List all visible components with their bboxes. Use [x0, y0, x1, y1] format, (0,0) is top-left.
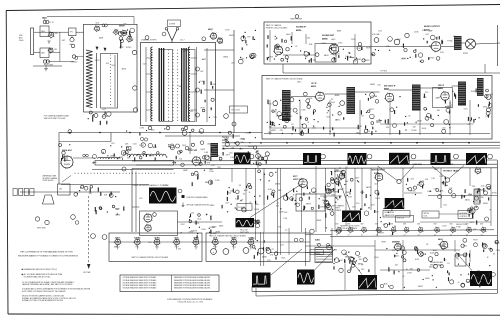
- svg-text:270V: 270V: [218, 43, 223, 45]
- oscillator coil L4: [151, 47, 153, 121]
- audio wires: [339, 46, 431, 48]
- vert lin pot: [326, 203, 330, 207]
- strip contact bar A: [158, 48, 160, 121]
- svg-text:150V: 150V: [414, 92, 419, 94]
- svg-text:.22: .22: [271, 249, 274, 251]
- svg-text:100K: 100K: [425, 278, 430, 280]
- heater tube row: [337, 228, 342, 233]
- svg-text:100K: 100K: [414, 32, 419, 34]
- agc line parts: [126, 130, 127, 131]
- svg-text:4BZ6: 4BZ6: [296, 29, 302, 32]
- svg-text:VERT: VERT: [366, 187, 372, 189]
- right edge vertical: [497, 160, 499, 294]
- power tube V23: [440, 241, 448, 249]
- svg-text:MIXER: MIXER: [119, 26, 125, 28]
- power tube V22: [395, 244, 402, 251]
- power supply box: [304, 228, 306, 266]
- AGC box bottom: [61, 184, 149, 186]
- svg-text:4BN6: 4BN6: [370, 84, 375, 86]
- svg-text:.047: .047: [269, 127, 273, 129]
- W9 side parts: [253, 220, 256, 223]
- flyback parts: [483, 188, 485, 192]
- RF top cap pair: [102, 24, 105, 27]
- tuner cap pair bottom: [43, 60, 46, 63]
- svg-text:SOUND IF: SOUND IF: [296, 27, 307, 29]
- audio feed drop: [484, 64, 486, 73]
- flyback winding: [474, 189, 480, 204]
- svg-text:33: 33: [408, 115, 410, 117]
- waveform photo W13: [470, 271, 492, 286]
- sound components B: [356, 58, 357, 59]
- lineup box 1: [109, 233, 202, 261]
- height control: [272, 190, 275, 193]
- svg-text:6X8: 6X8: [466, 224, 469, 226]
- svg-text:3.9K: 3.9K: [348, 197, 353, 199]
- svg-text:680: 680: [462, 102, 465, 104]
- svg-text:1K5: 1K5: [54, 49, 57, 51]
- svg-text:6X8: 6X8: [336, 224, 339, 226]
- deflection yoke plug: [13, 189, 17, 196]
- bus junction cap: [68, 130, 72, 134]
- svg-text:6.8K: 6.8K: [358, 126, 363, 128]
- svg-text:AMP: AMP: [99, 36, 104, 39]
- svg-text:3.9K: 3.9K: [357, 48, 362, 50]
- svg-text:4BN6: 4BN6: [262, 257, 267, 259]
- AGC line trimmers: [224, 114, 229, 119]
- svg-text:4BN6: 4BN6: [322, 37, 328, 40]
- height control pot: [326, 189, 331, 194]
- power area parts: [270, 252, 271, 253]
- IF inner wire row: [270, 127, 360, 129]
- svg-text:AMP: AMP: [337, 29, 342, 32]
- vert osc parts: [295, 203, 296, 204]
- vert section left vertical: [263, 169, 265, 233]
- svg-text:AMP: AMP: [434, 168, 439, 171]
- interlock label box: [310, 250, 324, 255]
- focus label box: [237, 204, 252, 211]
- svg-text:AMP: AMP: [336, 177, 341, 180]
- svg-text:VERT: VERT: [339, 189, 345, 191]
- svg-text:AGC: AGC: [286, 33, 291, 36]
- tube V20 horiz output: [375, 173, 383, 181]
- svg-text:5BB6: 5BB6: [193, 238, 199, 240]
- svg-text:270V: 270V: [225, 30, 230, 32]
- svg-text:HOR: HOR: [339, 260, 344, 262]
- IF stage4 parts: [444, 120, 449, 125]
- delay line DL1: [98, 157, 120, 159]
- svg-text:AMP: AMP: [115, 208, 120, 211]
- sync sep caps: [177, 151, 180, 154]
- right column components: [255, 30, 256, 31]
- IF agc row: [365, 125, 367, 128]
- sweep section top line 2: [136, 163, 497, 166]
- channel strip box: [141, 43, 216, 126]
- video amp cap pair: [140, 137, 143, 140]
- RF block lower trimmers: [94, 114, 98, 118]
- svg-text:DAMPER: DAMPER: [392, 241, 400, 244]
- svg-text:100K: 100K: [375, 198, 380, 200]
- svg-text:VERT: VERT: [271, 130, 277, 132]
- svg-text:6X8: 6X8: [417, 224, 420, 226]
- coupling cap C6: [71, 44, 75, 48]
- svg-text:2.2M: 2.2M: [140, 127, 145, 129]
- svg-text:TRANS: TRANS: [335, 209, 342, 212]
- power transformer T11: [315, 248, 333, 263]
- strip sub rect A: [159, 50, 173, 122]
- bottom mid wires: [310, 252, 330, 254]
- svg-text:8FP7: 8FP7: [293, 176, 298, 178]
- svg-text:300Ω: 300Ω: [19, 40, 24, 42]
- svg-text:6X8: 6X8: [361, 224, 364, 226]
- waveform W7 junction: [360, 208, 362, 210]
- svg-text:3.9K: 3.9K: [485, 116, 490, 118]
- B plus bus 2: [222, 144, 500, 147]
- strip sub rect B: [182, 50, 196, 122]
- svg-text:150V: 150V: [129, 40, 134, 42]
- svg-text:WAVEFORM: WAVEFORM: [385, 214, 395, 217]
- svg-text:4BN6: 4BN6: [275, 183, 281, 185]
- svg-text:VERT OSC: VERT OSC: [293, 179, 303, 181]
- ion trap dashed line: [88, 196, 90, 264]
- svg-text:HOR LIN: HOR LIN: [397, 218, 405, 220]
- horiz afc parts: [446, 185, 447, 186]
- svg-text:680: 680: [214, 146, 217, 148]
- sweep section box top: [132, 167, 497, 170]
- svg-text:4BZ6: 4BZ6: [210, 205, 215, 207]
- svg-text:HOR: HOR: [415, 259, 420, 261]
- audio area parts: [415, 49, 416, 50]
- svg-text:.047: .047: [313, 253, 317, 255]
- waveform pointer V1b: [400, 166, 414, 182]
- svg-text:6AU7: 6AU7: [115, 237, 121, 240]
- contrast control: [486, 95, 491, 100]
- svg-text:SYNC: SYNC: [103, 116, 109, 118]
- vert output verticals: [260, 232, 262, 266]
- bus junction dots: [234, 142, 236, 144]
- strip inner left line: [145, 47, 147, 122]
- lineup feed tubes: [91, 234, 96, 239]
- horiz section divider: [330, 235, 497, 238]
- svg-text:5U4: 5U4: [378, 30, 381, 32]
- boost cap: [419, 252, 424, 257]
- svg-text:5U4: 5U4: [307, 37, 310, 39]
- waveform W0 callout: [178, 189, 182, 193]
- svg-text:.047: .047: [200, 71, 204, 73]
- right margin line: [497, 25, 499, 66]
- sound inner parts: [315, 53, 319, 57]
- svg-text:TO PIN 3: TO PIN 3: [380, 71, 387, 73]
- svg-text:AGC: AGC: [244, 189, 249, 192]
- page border left edge: [6, 11, 8, 315]
- svg-text:PART OF CHASSIS PRINTED CIRCUI: PART OF CHASSIS PRINTED CIRCUIT BOARD: [132, 256, 169, 259]
- strip contact bar B: [181, 48, 183, 121]
- filter cap C40: [211, 249, 217, 255]
- waveform pointer V2b: [449, 166, 464, 179]
- svg-text:3RD IF: 3RD IF: [438, 85, 445, 87]
- svg-text:4.7: 4.7: [376, 235, 378, 237]
- svg-text:470: 470: [280, 130, 283, 132]
- pointer line d3: [337, 174, 351, 212]
- svg-text:100K: 100K: [254, 209, 259, 211]
- rectifier parts: [342, 250, 347, 255]
- svg-text:6X8: 6X8: [403, 224, 406, 226]
- svg-text:33: 33: [295, 46, 297, 48]
- svg-text:TWEET FILTER: TWEET FILTER: [290, 19, 303, 21]
- svg-text:VERT: VERT: [339, 205, 345, 207]
- svg-text:CHANNEL STRIPS: CHANNEL STRIPS: [141, 39, 157, 42]
- svg-text:HEIGHT: HEIGHT: [332, 192, 338, 194]
- svg-text:4.7: 4.7: [481, 235, 483, 237]
- svg-text:SYNC: SYNC: [492, 193, 498, 195]
- vert out coupling: [35, 217, 39, 221]
- sweep section box left inner: [135, 172, 137, 233]
- svg-text:COIL: COIL: [424, 216, 428, 218]
- svg-text:4.7: 4.7: [348, 235, 350, 237]
- bottom mid parts: [348, 252, 349, 253]
- vert integrator parts: [240, 200, 241, 201]
- svg-text:5U4: 5U4: [443, 205, 446, 207]
- delay line tap: [122, 167, 126, 171]
- mixer cluster: [121, 30, 126, 35]
- flyback feed wire: [428, 195, 497, 197]
- wafer arrow B: [104, 48, 107, 52]
- balun box B2: [40, 48, 49, 58]
- RF section outer box: [84, 24, 138, 112]
- svg-text:8CA: 8CA: [175, 237, 180, 240]
- svg-text:OSC: OSC: [241, 59, 246, 61]
- tube V17 phase det: [145, 225, 151, 231]
- RF top tube: [95, 26, 100, 31]
- svg-text:4BN6: 4BN6: [358, 263, 364, 265]
- sound box wires: [283, 54, 315, 56]
- balun box B1: [40, 26, 49, 37]
- svg-text:SYNC: SYNC: [287, 116, 293, 118]
- svg-text:100K: 100K: [272, 112, 277, 114]
- svg-text:AMP: AMP: [357, 58, 362, 61]
- filter cap C42: [243, 248, 249, 254]
- svg-text:AGC: AGC: [153, 146, 158, 149]
- svg-text:AMP: AMP: [202, 58, 207, 61]
- svg-text:.047: .047: [395, 265, 399, 267]
- svg-text:150V: 150V: [442, 226, 447, 228]
- IF stage1 parts: [272, 122, 274, 126]
- svg-text:270V: 270V: [194, 223, 199, 225]
- speaker: [466, 39, 476, 49]
- svg-text:SYNC: SYNC: [447, 40, 453, 42]
- tube V15 AGC keyer: [61, 156, 73, 168]
- tube V16 sync amp: [144, 214, 152, 222]
- svg-text:TP1 LOOK: TP1 LOOK: [231, 110, 241, 112]
- legend chassis symbol: [182, 195, 185, 198]
- svg-text:150V: 150V: [316, 244, 321, 246]
- svg-text:4BN6: 4BN6: [110, 156, 116, 158]
- svg-text:5U4: 5U4: [143, 64, 146, 66]
- RF coil inner rect: [101, 54, 118, 109]
- svg-text:150V: 150V: [470, 222, 475, 224]
- tube V10 1st IF: [316, 92, 325, 101]
- strip top trimmers: [145, 36, 149, 40]
- svg-text:4.7: 4.7: [404, 235, 406, 237]
- upper sweep parts: [197, 176, 199, 179]
- svg-text:.22: .22: [285, 230, 288, 232]
- tuner top AGC wire: [47, 16, 134, 18]
- svg-text:SOUND DET: SOUND DET: [322, 35, 335, 37]
- tube V8 sound det: [329, 44, 339, 54]
- svg-text:PRINTED CIRCUIT BOARD: PRINTED CIRCUIT BOARD: [266, 27, 288, 30]
- IF stage drops: [269, 100, 271, 135]
- yoke line parts: [74, 193, 78, 197]
- svg-text:FOR TUNER ALIGNMENT DATA: FOR TUNER ALIGNMENT DATA: [44, 114, 70, 117]
- svg-text:2BN4: 2BN4: [42, 17, 47, 20]
- wire strip to IF: [204, 49, 234, 51]
- svg-text:270V: 270V: [188, 149, 193, 151]
- legend ground symbol: [182, 203, 185, 207]
- svg-text:6X8: 6X8: [347, 224, 350, 226]
- vert coupling caps: [71, 215, 76, 220]
- hv cage box: [455, 255, 466, 266]
- svg-text:680: 680: [114, 247, 117, 249]
- video peaking label box: [127, 147, 132, 151]
- horiz osc parts: [335, 197, 336, 198]
- sweep box bottom inner: [252, 290, 497, 292]
- svg-text:470: 470: [139, 198, 142, 200]
- svg-text:8CA: 8CA: [213, 237, 218, 240]
- waveform photo W11: [297, 270, 315, 285]
- output transformer T10: [454, 36, 462, 50]
- B plus bus 1: [222, 141, 500, 144]
- test point box TP1: [69, 28, 77, 36]
- heater string wire: [330, 230, 494, 231]
- mixer coil L5: [188, 47, 190, 121]
- svg-text:6X8: 6X8: [434, 224, 437, 226]
- RF cascode tube: [114, 30, 118, 34]
- svg-text:VERT: VERT: [215, 231, 221, 233]
- AGC pointer mark: [62, 176, 71, 183]
- keyer side parts: [69, 144, 70, 145]
- svg-text:5U4: 5U4: [96, 23, 99, 25]
- svg-text:C1 10: C1 10: [49, 22, 54, 24]
- video section top wire: [165, 135, 240, 137]
- svg-text:AGC: AGC: [332, 38, 337, 41]
- tweet filter: [295, 15, 299, 19]
- svg-text:4.7: 4.7: [391, 235, 393, 237]
- svg-text:100K: 100K: [163, 185, 168, 187]
- pointer line d1: [250, 183, 303, 218]
- svg-text:6X8: 6X8: [375, 224, 378, 226]
- svg-text:OSC: OSC: [464, 108, 469, 110]
- power box tubes: [310, 229, 314, 233]
- IF transformer T5: [477, 78, 484, 96]
- svg-text:680: 680: [437, 110, 440, 112]
- tube V1 RF amp: [49, 32, 54, 37]
- IF transformer T2: [347, 87, 356, 114]
- svg-text:6BQ7: 6BQ7: [208, 29, 213, 31]
- width coil box: [422, 211, 439, 218]
- svg-text:270V: 270V: [320, 207, 325, 209]
- vert osc box: [296, 194, 325, 211]
- svg-text:4.7: 4.7: [361, 235, 363, 237]
- svg-text:5U4G: 5U4G: [315, 239, 320, 242]
- B plus bus 3: [222, 147, 500, 150]
- svg-text:DENOTES CHASSIS MALE: DENOTES CHASSIS MALE: [187, 196, 209, 199]
- svg-text:SPECIAL CHASSIS GROUND: SPECIAL CHASSIS GROUND: [187, 204, 211, 207]
- wafer contact dots: [167, 49, 170, 52]
- svg-text:AGC: AGC: [395, 254, 400, 257]
- tone cap: [405, 33, 409, 37]
- wire RF input lower: [34, 51, 40, 53]
- svg-text:AMP: AMP: [183, 169, 188, 172]
- tuner interconnect wires: [59, 32, 61, 61]
- delay line body: [95, 161, 174, 166]
- waveform photo W8: [385, 198, 405, 209]
- yoke plug pins: [380, 284, 384, 288]
- svg-text:VERT: VERT: [95, 60, 101, 62]
- svg-text:+: +: [213, 250, 215, 254]
- waveform photo W6: [466, 153, 487, 165]
- svg-text:4.7: 4.7: [466, 235, 468, 237]
- svg-text:AMP: AMP: [436, 96, 441, 99]
- svg-text:VERT: VERT: [369, 109, 375, 111]
- strip right column: [206, 48, 208, 122]
- antenna terminal strip: [31, 28, 34, 55]
- antenna terminal box label: [168, 20, 181, 27]
- waveform callout F1: [397, 179, 401, 183]
- svg-text:220: 220: [372, 96, 375, 98]
- page border bottom edge: [8, 314, 500, 315]
- tube V19 horiz osc: [339, 173, 345, 179]
- svg-text:.001: .001: [239, 149, 243, 151]
- lineup tubes group A: [115, 239, 121, 245]
- sound takeoff transformer T6: [211, 143, 219, 157]
- svg-text:4.7: 4.7: [434, 235, 436, 237]
- waveform photo W5: [431, 153, 451, 165]
- svg-text:HOR OSC: HOR OSC: [413, 164, 423, 166]
- corner parts: [495, 242, 496, 243]
- tube V6 cascode: [211, 33, 217, 39]
- RF coil core dashes: [109, 54, 112, 57]
- video IF box: [262, 76, 492, 140]
- svg-text:100K: 100K: [200, 81, 205, 83]
- boxed test label: [230, 106, 248, 113]
- svg-text:.001: .001: [231, 148, 235, 150]
- svg-text:VERT SIZE: VERT SIZE: [37, 228, 47, 230]
- svg-text:HOR: HOR: [366, 47, 371, 49]
- tube V12 3rd IF: [441, 92, 449, 100]
- strip bottom trimmers: [148, 126, 152, 130]
- svg-text:2.2M: 2.2M: [215, 180, 220, 182]
- svg-text:100K: 100K: [422, 128, 427, 130]
- svg-text:.047: .047: [123, 33, 127, 35]
- sync sep parts: [204, 155, 209, 160]
- svg-text:5U4: 5U4: [112, 65, 115, 67]
- svg-text:L6 L7: L6 L7: [180, 40, 185, 42]
- svg-text:VERT: VERT: [381, 242, 387, 244]
- strip inner right line: [196, 47, 198, 122]
- svg-text:100K: 100K: [279, 212, 284, 214]
- svg-text:AUDIO OUTPUT: AUDIO OUTPUT: [424, 25, 441, 28]
- right col parts: [467, 208, 471, 212]
- tube V2 RF amp B: [49, 48, 53, 52]
- lineup box 2: [206, 233, 310, 261]
- linearity box: [396, 216, 414, 223]
- svg-text:AMP: AMP: [205, 181, 210, 184]
- svg-text:470: 470: [356, 203, 359, 205]
- svg-text:1500: 1500: [469, 123, 473, 125]
- svg-text:4BN6: 4BN6: [115, 215, 121, 217]
- waveform photo W12: [358, 275, 377, 290]
- svg-text:AGC: AGC: [397, 38, 402, 41]
- delay line wire: [73, 157, 95, 159]
